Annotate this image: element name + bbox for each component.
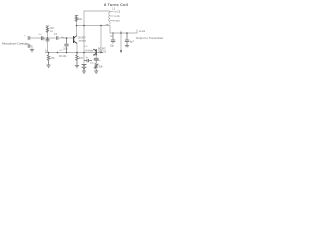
svg-text:2N3904: 2N3904: [78, 40, 86, 42]
transistor Q1: [74, 36, 78, 44]
svg-text:2N2222: 2N2222: [98, 51, 107, 53]
junction Q2 drop: [100, 25, 102, 27]
capacitor C8 series horizontal: [84, 59, 92, 62]
ground R5: [94, 71, 98, 73]
wire base lead: [59, 37, 74, 39]
wire output drop: [120, 31, 122, 51]
svg-text:BC 547: BC 547: [98, 48, 106, 50]
capacitor C3 bias bypass: [46, 39, 50, 41]
junction C5 top: [112, 32, 113, 33]
junction rail-collector feed: [83, 25, 85, 27]
junction rail C4: [66, 52, 68, 54]
svg-text:Microphone Cartridge: Microphone Cartridge: [2, 41, 29, 45]
resistor R4 emitter: [76, 53, 79, 66]
capacitor C5 output chain: [111, 33, 115, 44]
wire collector feed: [77, 25, 111, 27]
svg-text:BC547: BC547: [78, 37, 86, 40]
trimpot R5: [94, 63, 99, 71]
svg-text:470: 470: [79, 57, 84, 60]
wire emitter column: [76, 44, 78, 53]
capacitor C6 antenna coupling: [125, 33, 129, 46]
svg-text:C6 10n: C6 10n: [59, 55, 67, 58]
capacitor C4 base bypass: [64, 38, 68, 53]
junction C4 top: [66, 37, 68, 39]
junction output node: [120, 32, 122, 34]
arrow output bottom: [120, 50, 122, 53]
battery B1: [82, 64, 87, 71]
svg-text:4p7: 4p7: [130, 40, 135, 43]
svg-text:Output to Transmitter: Output to Transmitter: [136, 36, 163, 40]
transistor Q2: [93, 49, 96, 56]
svg-text:470: 470: [50, 57, 55, 60]
junction rail Q2: [100, 52, 102, 54]
junction base bias: [47, 37, 49, 39]
ground B1: [82, 71, 86, 73]
svg-text:to C5: to C5: [115, 11, 121, 14]
svg-text:10n: 10n: [63, 47, 68, 50]
svg-text:8 Turns Coil: 8 Turns Coil: [104, 2, 128, 7]
svg-text:+9 Volts: +9 Volts: [85, 49, 94, 52]
wire Q2 emitter: [95, 55, 97, 58]
junction rail R3: [48, 52, 50, 54]
ground mic: [30, 50, 34, 52]
svg-text:1M: 1M: [50, 27, 53, 30]
capacitor C7 electrolytic: [94, 58, 99, 63]
wire Q2 collector drop: [100, 26, 102, 53]
junction C6 top: [126, 32, 128, 34]
wire collector column: [76, 15, 78, 35]
svg-text:to ant: to ant: [139, 30, 145, 33]
svg-text:to 9v: to 9v: [115, 15, 121, 18]
capacitor C2 series: [56, 36, 58, 40]
svg-text:to ant.: to ant.: [114, 20, 121, 23]
wire bottom rail: [45, 52, 103, 54]
wire coil bottom drop: [110, 26, 137, 34]
ground C6: [125, 46, 129, 47]
resistor R3 below rail: [47, 53, 50, 66]
resistor R2 collector load: [75, 15, 78, 21]
wire top rail: [84, 11, 110, 53]
wire mic top lead: [31, 37, 56, 39]
wire bias column: [47, 26, 49, 53]
wire battery branch: [83, 53, 85, 64]
capacitor C1 series: [41, 36, 43, 40]
junction rail supply: [83, 52, 85, 54]
junction Q1 collector: [76, 25, 78, 27]
coil L1 8 turns: [109, 11, 114, 25]
junction rail emitter: [76, 52, 78, 54]
microphone terminal top: [28, 36, 30, 40]
ground R4: [75, 66, 79, 68]
wire mic bottom lead: [31, 46, 33, 49]
resistor R1 bias: [46, 26, 49, 32]
junction rail mid: [57, 52, 59, 54]
ground R3: [46, 65, 50, 67]
microphone terminal bottom: [28, 44, 30, 48]
